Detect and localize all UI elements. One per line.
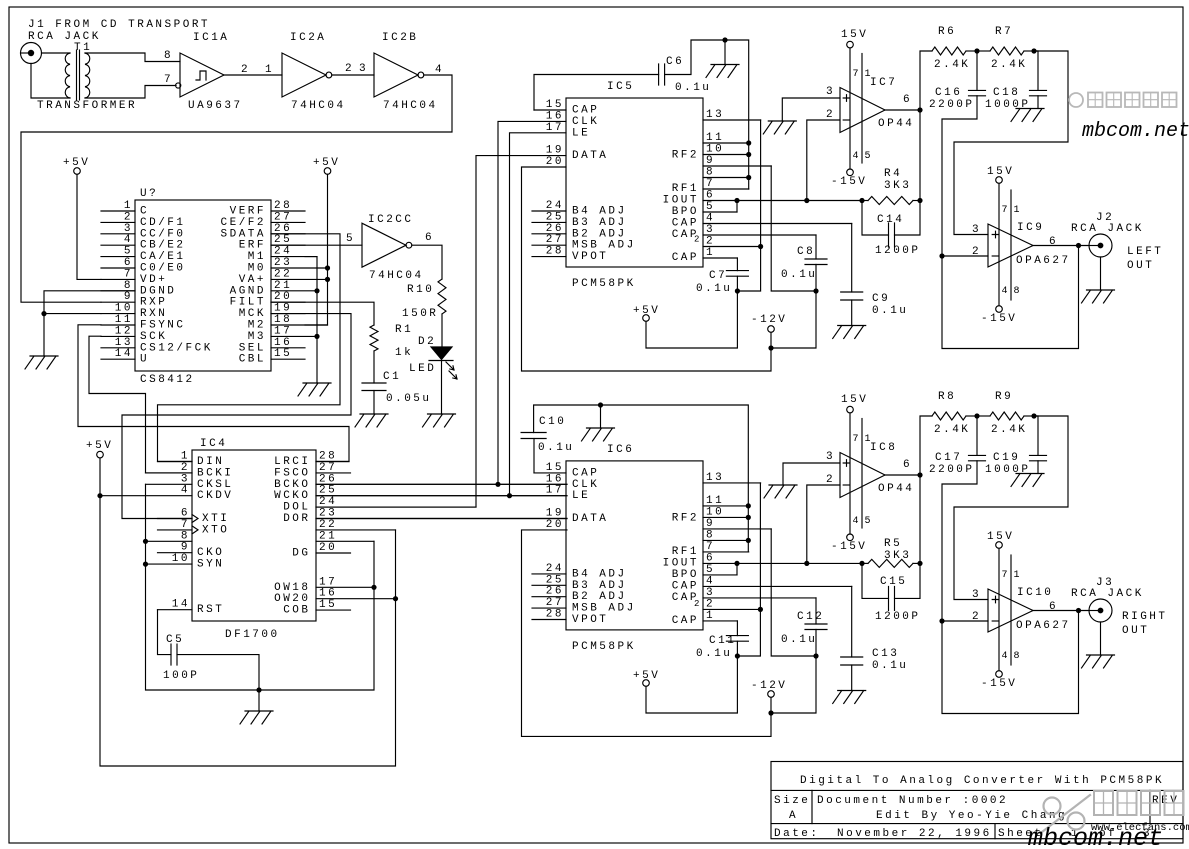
svg-text:8: 8 xyxy=(706,529,715,541)
capacitor C15 1200P xyxy=(862,563,889,598)
power -15V (IC7) xyxy=(847,169,854,176)
svg-text:AGND: AGND xyxy=(230,285,266,297)
ground (C10) xyxy=(582,428,615,441)
svg-text:1: 1 xyxy=(181,451,190,463)
wire IC2A output to IC2B input xyxy=(332,74,374,76)
junction pin8 xyxy=(143,539,148,544)
junction IC5 pin11 xyxy=(746,140,751,145)
wire IC5 pin13 pin2 to C7 +5V net xyxy=(737,120,760,291)
svg-text:13: 13 xyxy=(115,337,133,349)
svg-text:16: 16 xyxy=(319,588,337,600)
svg-text:3: 3 xyxy=(706,224,715,236)
svg-text:FSCO: FSCO xyxy=(274,467,310,479)
wire DOL to IC5 DATA xyxy=(316,156,566,508)
ground (D2) xyxy=(423,414,456,427)
wire +5V to VD+ pin 7 xyxy=(77,174,101,279)
svg-text:15: 15 xyxy=(319,599,337,611)
svg-text:CLK: CLK xyxy=(572,479,599,491)
junction IC10 output xyxy=(1076,608,1081,613)
svg-text:15V: 15V xyxy=(987,166,1014,178)
junction WCKO-LE xyxy=(507,493,512,498)
svg-text:2200P: 2200P xyxy=(929,464,975,476)
svg-text:4: 4 xyxy=(435,64,444,76)
svg-text:CAP: CAP xyxy=(672,615,699,627)
svg-text:9: 9 xyxy=(706,518,715,530)
wire BPO pin5 riser (IC6) xyxy=(736,563,738,575)
svg-text:B3 ADJ: B3 ADJ xyxy=(572,580,627,592)
svg-text:XTI: XTI xyxy=(202,513,229,525)
junction OW20 xyxy=(393,596,398,601)
svg-text:0.1u: 0.1u xyxy=(696,648,732,660)
wire +5V to M0 VA+ M2 xyxy=(305,174,328,325)
power -15V (IC8) xyxy=(847,534,854,541)
svg-text:27: 27 xyxy=(546,234,564,246)
svg-text:8: 8 xyxy=(181,530,190,542)
svg-text:2.4K: 2.4K xyxy=(991,424,1027,436)
svg-text:5: 5 xyxy=(865,151,871,162)
connector J1 RCA jack xyxy=(21,43,42,64)
svg-text:-15V: -15V xyxy=(831,541,867,553)
junction IC5 pin2 xyxy=(758,244,763,249)
wire J1 to T1 primary xyxy=(42,52,71,54)
junction IC10 -in xyxy=(939,618,944,623)
wire IC10 output to J3 xyxy=(1033,610,1089,612)
svg-text:21: 21 xyxy=(319,530,337,542)
ground (CS8412 DGND) xyxy=(25,356,58,369)
svg-text:CE/F2: CE/F2 xyxy=(221,217,267,229)
svg-text:6: 6 xyxy=(1049,236,1058,248)
svg-text:22: 22 xyxy=(319,519,337,531)
svg-text:26: 26 xyxy=(546,586,564,598)
wire IC6 CAP pin15 to C10 xyxy=(533,439,535,473)
svg-text:C10: C10 xyxy=(539,416,566,428)
svg-text:PCM58PK: PCM58PK xyxy=(572,641,636,653)
capacitor C6 0.1u xyxy=(659,64,665,85)
svg-text:9: 9 xyxy=(706,155,715,167)
ground (IC7 +in) xyxy=(763,121,796,134)
wire IC7 + input to ground xyxy=(782,98,840,121)
svg-text:25: 25 xyxy=(546,211,564,223)
svg-text:17: 17 xyxy=(546,122,564,134)
svg-text:SCK: SCK xyxy=(140,331,167,343)
svg-text:VPOT: VPOT xyxy=(572,251,608,263)
svg-text:IC7: IC7 xyxy=(870,77,897,89)
svg-text:DF1700: DF1700 xyxy=(225,629,280,641)
svg-text:3: 3 xyxy=(826,86,835,98)
wire C11 to +5V xyxy=(736,641,738,656)
ground (IC4) xyxy=(258,690,260,711)
capacitor C13 0.1u xyxy=(841,657,863,665)
svg-text:IC9: IC9 xyxy=(1017,222,1044,234)
wire IC6 pin13 pin2 to C11 +5V net xyxy=(737,483,760,656)
wire C9 to ground xyxy=(851,300,853,326)
wire -12V to IC5 pin20 xyxy=(522,167,772,371)
svg-text:D2: D2 xyxy=(418,336,436,348)
capacitor C18 1000P xyxy=(1034,51,1038,90)
svg-text:BPO: BPO xyxy=(672,569,699,581)
capacitor C1 0.05u xyxy=(362,383,386,391)
junction M0 xyxy=(325,265,330,270)
svg-text:+5V: +5V xyxy=(86,440,113,452)
svg-text:6: 6 xyxy=(903,94,912,106)
svg-text:IC5: IC5 xyxy=(607,81,634,93)
wire C12 to -12V xyxy=(771,630,816,714)
ground (J3) xyxy=(1082,655,1115,668)
capacitor C8 0.1u xyxy=(805,259,827,265)
svg-text:FSYNC: FSYNC xyxy=(140,320,186,332)
wire IOUT IC6 pin6 to R5 node xyxy=(807,562,862,564)
svg-text:DOL: DOL xyxy=(283,502,310,514)
svg-text:28: 28 xyxy=(274,200,292,212)
wire C6 to ground net and IC5 pins 11 10 8 7 xyxy=(665,40,749,189)
svg-text:6: 6 xyxy=(1049,601,1058,613)
svg-text:XTO: XTO xyxy=(202,524,229,536)
svg-text:24: 24 xyxy=(319,496,337,508)
svg-text:Date:: Date: xyxy=(774,828,820,840)
wire C17 to IC10 inverting node xyxy=(942,461,1079,714)
junction SYN xyxy=(143,562,148,567)
wire D2 to ground xyxy=(441,361,443,415)
svg-text:C18: C18 xyxy=(993,87,1020,99)
capacitor C19 1000P xyxy=(1034,416,1038,455)
svg-text:SDATA: SDATA xyxy=(221,228,267,240)
junction RXN-DGND xyxy=(41,311,46,316)
title block xyxy=(771,762,1183,839)
svg-text:DATA: DATA xyxy=(572,513,608,525)
svg-text:16: 16 xyxy=(546,473,564,485)
svg-text:IC10: IC10 xyxy=(1017,587,1053,599)
junction IC7 output xyxy=(917,107,922,112)
svg-text:R1: R1 xyxy=(395,324,413,336)
svg-text:7: 7 xyxy=(164,74,173,86)
svg-text:28: 28 xyxy=(546,246,564,258)
wire C19 to ground xyxy=(1037,461,1039,474)
junction VA+ xyxy=(325,277,330,282)
wire -12V to IC6 pin20 xyxy=(522,530,772,737)
junction R4 right xyxy=(917,198,922,203)
wire C13 to ground xyxy=(851,665,853,691)
svg-text:0.05u: 0.05u xyxy=(386,393,432,405)
wire RST to C5 xyxy=(158,610,172,655)
svg-text:ERF: ERF xyxy=(239,240,266,252)
svg-text:15: 15 xyxy=(274,348,292,360)
svg-text:OPA627: OPA627 xyxy=(1016,620,1071,632)
svg-text:6: 6 xyxy=(425,232,434,244)
svg-text:RF2: RF2 xyxy=(672,150,699,162)
ground (J2) xyxy=(1082,290,1115,303)
wire SDATA to IC4 DIN xyxy=(158,234,341,462)
svg-text:18: 18 xyxy=(274,314,292,326)
svg-text:1: 1 xyxy=(706,247,715,259)
svg-text:5: 5 xyxy=(865,516,871,527)
svg-text:TRANSFORMER: TRANSFORMER xyxy=(37,100,137,112)
svg-text:15V: 15V xyxy=(987,531,1014,543)
svg-text:CB/E2: CB/E2 xyxy=(140,240,186,252)
wire R9 output to IC10 + input xyxy=(954,416,1068,600)
junction CKDV xyxy=(97,493,102,498)
wire C10 to ground net and IC6 pins 11 10 8 7 xyxy=(534,405,749,552)
junction R5 left xyxy=(859,561,864,566)
svg-text:2200P: 2200P xyxy=(929,99,975,111)
svg-text:BPO: BPO xyxy=(672,206,699,218)
svg-text:CKDV: CKDV xyxy=(197,490,233,502)
wire IOUT IC5 pin6 to R4 node xyxy=(807,200,862,202)
wire IC8 output node xyxy=(885,474,920,476)
junction R4 left xyxy=(859,198,864,203)
wire T1 secondary to IC1A pins 8 and 7 xyxy=(85,53,180,62)
svg-text:C19: C19 xyxy=(993,452,1020,464)
svg-text:2: 2 xyxy=(345,63,354,75)
wire C16 to IC9 inverting node xyxy=(942,96,1079,349)
junction IC6 pin10 xyxy=(746,515,751,520)
svg-text:15: 15 xyxy=(546,99,564,111)
svg-text:1200P: 1200P xyxy=(875,611,921,623)
svg-text:C6: C6 xyxy=(666,56,684,68)
svg-text:6: 6 xyxy=(706,552,715,564)
svg-text:Digital To Analog Converter Wi: Digital To Analog Converter With PCM58PK xyxy=(800,775,1164,787)
svg-text:19: 19 xyxy=(546,508,564,520)
svg-text:November 22, 1996: November 22, 1996 xyxy=(837,828,992,840)
svg-text:MSB ADJ: MSB ADJ xyxy=(572,240,636,252)
svg-text:B3 ADJ: B3 ADJ xyxy=(572,217,627,229)
svg-text:UA9637: UA9637 xyxy=(188,100,243,112)
junction C5 ground node xyxy=(256,687,261,692)
svg-text:RXP: RXP xyxy=(140,297,167,309)
svg-text:-15V: -15V xyxy=(831,176,867,188)
svg-text:MCK: MCK xyxy=(239,308,266,320)
svg-text:RF2: RF2 xyxy=(672,512,699,524)
svg-text:M2: M2 xyxy=(248,320,266,332)
capacitor C14 1200P xyxy=(862,201,889,236)
svg-text:RST: RST xyxy=(197,604,224,616)
svg-text:24: 24 xyxy=(546,200,564,212)
svg-text:C: C xyxy=(140,206,149,218)
svg-text:4: 4 xyxy=(1002,651,1008,662)
svg-text:27: 27 xyxy=(319,462,337,474)
svg-text:Edit By Yeo-Yie Chang: Edit By Yeo-Yie Chang xyxy=(876,810,1067,822)
svg-text:4: 4 xyxy=(706,213,715,225)
wire IC9 inverting input xyxy=(942,255,988,257)
svg-text:C14: C14 xyxy=(877,214,904,226)
svg-text:LEFT: LEFT xyxy=(1127,246,1163,258)
svg-text:13: 13 xyxy=(706,109,724,121)
wire IC5 pin9 to C8 -12V net xyxy=(771,166,816,291)
svg-text:C5: C5 xyxy=(166,634,184,646)
junction BCKO-CLK xyxy=(495,482,500,487)
svg-text:10: 10 xyxy=(115,303,133,315)
svg-text:3: 3 xyxy=(972,224,981,236)
junction -12V node (IC6) xyxy=(768,710,773,715)
svg-text:3: 3 xyxy=(359,63,368,75)
svg-text:7: 7 xyxy=(1002,570,1008,581)
wire C5 to ground node xyxy=(177,655,259,690)
svg-text:4: 4 xyxy=(1002,286,1008,297)
svg-text:1: 1 xyxy=(865,69,871,80)
svg-text:0.1u: 0.1u xyxy=(675,82,711,94)
svg-text:IC6: IC6 xyxy=(607,444,634,456)
svg-text:CA/E1: CA/E1 xyxy=(140,251,186,263)
svg-text:IC8: IC8 xyxy=(870,442,897,454)
svg-text:B4 ADJ: B4 ADJ xyxy=(572,206,627,218)
svg-text:150R: 150R xyxy=(402,308,438,320)
svg-text:12: 12 xyxy=(115,325,133,337)
svg-text:BCKI: BCKI xyxy=(197,467,233,479)
svg-text:74HC04: 74HC04 xyxy=(383,100,438,112)
svg-text:16: 16 xyxy=(274,337,292,349)
svg-text:RF1: RF1 xyxy=(672,546,699,558)
svg-text:BCKO: BCKO xyxy=(274,479,310,491)
svg-text:CBL: CBL xyxy=(239,354,266,366)
svg-text:20: 20 xyxy=(319,542,337,554)
svg-text:LE: LE xyxy=(572,490,590,502)
svg-text:10: 10 xyxy=(706,144,724,156)
wire FILT to R1 xyxy=(271,302,374,325)
svg-text:4: 4 xyxy=(706,575,715,587)
svg-text:C11: C11 xyxy=(709,635,736,647)
junction IOUT node (IC6) xyxy=(804,561,809,566)
svg-text:2: 2 xyxy=(826,109,835,121)
svg-text:IC1A: IC1A xyxy=(193,32,229,44)
svg-text:10: 10 xyxy=(706,506,724,518)
capacitor C5 100P xyxy=(171,644,177,665)
svg-text:B2 ADJ: B2 ADJ xyxy=(572,228,627,240)
svg-text:19: 19 xyxy=(274,303,292,315)
svg-text:20: 20 xyxy=(546,519,564,531)
wire C1 to ground xyxy=(373,391,375,415)
svg-text:B2 ADJ: B2 ADJ xyxy=(572,591,627,603)
svg-text:-15V: -15V xyxy=(981,678,1017,690)
svg-text:6: 6 xyxy=(903,459,912,471)
svg-text:CAP: CAP xyxy=(672,218,699,230)
ground (C13) xyxy=(833,691,866,704)
svg-text:22: 22 xyxy=(274,268,292,280)
resistor R1 1k xyxy=(370,325,378,351)
svg-text:M0: M0 xyxy=(248,263,266,275)
capacitor C9 0.1u xyxy=(841,292,863,300)
junction R9-C19 xyxy=(1031,413,1036,418)
svg-text:28: 28 xyxy=(319,451,337,463)
svg-text:C17: C17 xyxy=(935,452,962,464)
svg-text:C15: C15 xyxy=(880,576,907,588)
svg-text:7: 7 xyxy=(706,178,715,190)
svg-text:1000P: 1000P xyxy=(985,99,1031,111)
svg-text:LRCI: LRCI xyxy=(274,456,310,468)
svg-text:COB: COB xyxy=(283,605,310,617)
junction IOUT node xyxy=(804,198,809,203)
wire R10 to D2 xyxy=(441,314,443,347)
svg-text:2: 2 xyxy=(241,64,250,76)
svg-text:2: 2 xyxy=(694,599,699,609)
wire BPO pin5 riser xyxy=(736,201,738,213)
svg-text:R7: R7 xyxy=(995,26,1013,38)
svg-text:OP44: OP44 xyxy=(878,118,914,130)
svg-text:DOR: DOR xyxy=(283,513,310,525)
svg-text:DATA: DATA xyxy=(572,150,608,162)
junction IC5 pin10 xyxy=(746,152,751,157)
svg-text:27: 27 xyxy=(274,211,292,223)
svg-text:20: 20 xyxy=(274,291,292,303)
svg-text:CAP: CAP xyxy=(572,105,599,117)
svg-text:17: 17 xyxy=(319,576,337,588)
svg-text:J1 FROM CD TRANSPORT: J1 FROM CD TRANSPORT xyxy=(28,19,210,31)
svg-text:C7: C7 xyxy=(709,270,727,282)
wire IC5 CAP pin15 to C6 xyxy=(534,75,659,111)
svg-text:RCA JACK: RCA JACK xyxy=(1071,223,1144,235)
svg-text:6: 6 xyxy=(124,257,133,269)
junction R5 right xyxy=(917,561,922,566)
svg-text:6: 6 xyxy=(181,508,190,520)
junction IC6 pin11 xyxy=(746,503,751,508)
svg-text:IC2CC: IC2CC xyxy=(368,214,414,226)
svg-text:mbcom.net: mbcom.net xyxy=(1028,824,1163,849)
svg-text:15: 15 xyxy=(546,462,564,474)
wire MCK to IC4 XTI xyxy=(122,314,351,519)
svg-text:5: 5 xyxy=(706,201,715,213)
junction -12V node xyxy=(768,345,773,350)
svg-text:25: 25 xyxy=(274,234,292,246)
svg-text:7: 7 xyxy=(124,268,133,280)
svg-text:3: 3 xyxy=(706,587,715,599)
svg-text:3: 3 xyxy=(181,473,190,485)
wire IC6 pin1 to C11 xyxy=(736,621,738,636)
svg-text:11: 11 xyxy=(706,132,724,144)
svg-text:RXN: RXN xyxy=(140,308,167,320)
svg-text:26: 26 xyxy=(546,223,564,235)
svg-text:27: 27 xyxy=(546,597,564,609)
svg-text:DIN: DIN xyxy=(197,456,224,468)
svg-text:CS12/FCK: CS12/FCK xyxy=(140,342,213,354)
svg-text:OP44: OP44 xyxy=(878,483,914,495)
wire IOUT node to IC7 inverting input xyxy=(807,120,840,201)
ground (C6) xyxy=(706,65,739,78)
svg-text:CD/F1: CD/F1 xyxy=(140,217,186,229)
junction R7-C18 xyxy=(1031,48,1036,53)
svg-text:FILT: FILT xyxy=(230,297,266,309)
svg-text:RCA JACK: RCA JACK xyxy=(1071,588,1144,600)
svg-text:14: 14 xyxy=(115,348,133,360)
svg-text:0.1u: 0.1u xyxy=(696,283,732,295)
svg-text:3: 3 xyxy=(124,223,133,235)
svg-text:2.4K: 2.4K xyxy=(934,424,970,436)
svg-text:RF1: RF1 xyxy=(672,183,699,195)
svg-text:R9: R9 xyxy=(995,391,1013,403)
svg-text:26: 26 xyxy=(274,223,292,235)
wire IC5 pin3 to C8 xyxy=(815,235,817,259)
junction IC6 pin2 xyxy=(758,607,763,612)
svg-text:3: 3 xyxy=(972,589,981,601)
svg-text:4: 4 xyxy=(853,151,859,162)
svg-text:8: 8 xyxy=(1014,651,1020,662)
svg-text:DG: DG xyxy=(292,548,310,560)
wire +5V to CKDV and OW20 pin22 net xyxy=(100,458,396,766)
junction C6 ground tap xyxy=(722,37,727,42)
junction IC8 output xyxy=(917,472,922,477)
svg-text:28: 28 xyxy=(546,609,564,621)
svg-text:1: 1 xyxy=(1014,205,1020,216)
ground (C9) xyxy=(833,326,866,339)
wire IOUT node to IC8 inverting input xyxy=(807,485,840,563)
wire DGND RXN to ground xyxy=(44,291,135,356)
svg-text:LED: LED xyxy=(409,363,436,375)
svg-text:IOUT: IOUT xyxy=(663,557,699,569)
wire C8 to -12V xyxy=(771,265,816,349)
svg-text:IC2B: IC2B xyxy=(382,32,418,44)
svg-text:0.1u: 0.1u xyxy=(781,269,817,281)
wire IC2B output to CS8412 RXP pin 9 xyxy=(21,75,452,302)
svg-text:1: 1 xyxy=(1014,570,1020,581)
svg-text:6: 6 xyxy=(706,190,715,202)
svg-text:R5: R5 xyxy=(884,538,902,550)
